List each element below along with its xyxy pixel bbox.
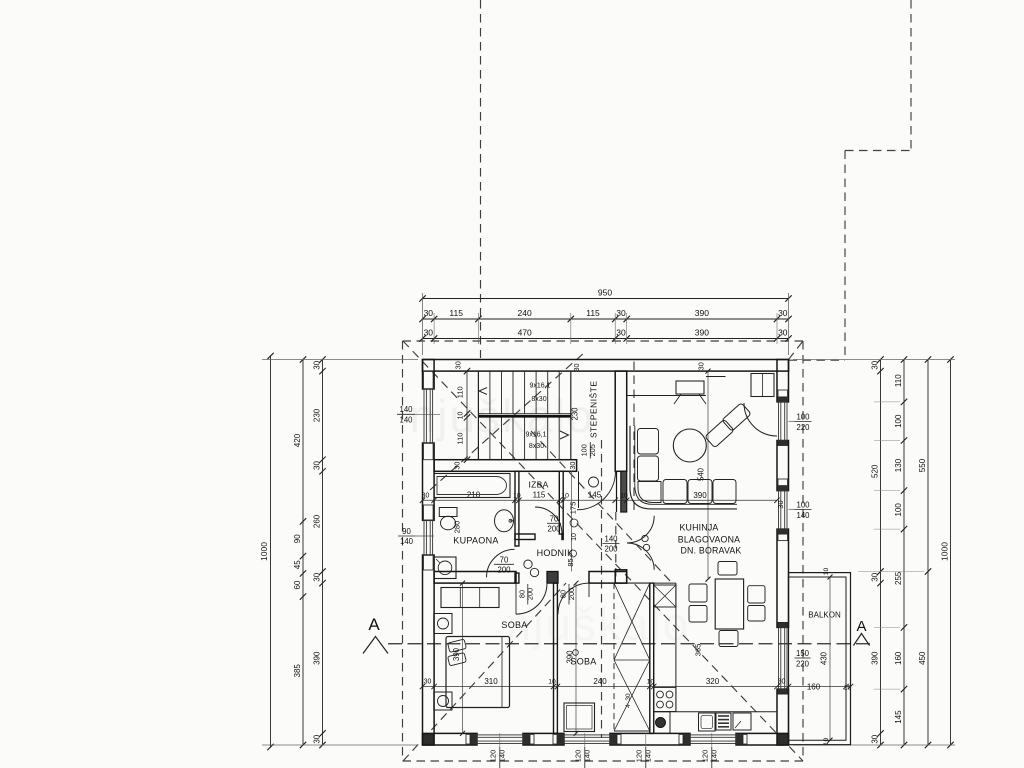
svg-text:120: 120 [489,750,498,763]
window label 120/140 #3 [635,733,653,768]
svg-text:140: 140 [399,405,413,414]
dim hodnik 175-10-85 [566,502,578,567]
dim chain left 420-90-45-60-385 [293,356,306,748]
balcony door 150x220 [779,627,788,689]
wall kupaona-izba divider upper [515,471,519,546]
svg-text:100: 100 [796,413,810,422]
svg-text:115: 115 [449,308,463,318]
svg-text:140: 140 [644,750,653,763]
wall right seg1 [777,360,789,402]
wall below stairs [434,460,576,472]
svg-text:45: 45 [293,560,302,569]
svg-text:200: 200 [526,588,535,600]
svg-text:200: 200 [547,525,561,534]
svg-text:30: 30 [313,572,322,581]
closet soba1 [441,588,499,608]
dashed boundary upper-right horizontal [845,150,911,152]
roof diagonal B [403,583,566,761]
label KUHINJA BLAGOVAONA DN BORAVAK [678,523,742,556]
dim chain top 30-470-30-390-30 [419,328,791,342]
svg-text:450: 450 [918,651,927,665]
window bottom 120x140 kitchen [679,734,747,744]
stair dim 110-10-110 [456,368,471,463]
svg-text:140: 140 [710,750,719,763]
window label 120/140 #2 [574,733,592,768]
svg-text:DN. BORAVAK: DN. BORAVAK [680,546,741,556]
svg-text:70: 70 [500,555,509,564]
svg-text:320: 320 [706,677,720,686]
svg-text:30: 30 [454,361,463,369]
svg-text:30: 30 [871,734,880,743]
svg-text:30: 30 [313,360,322,369]
svg-text:10: 10 [571,533,578,541]
dim extension lines top [423,293,789,355]
wall top [423,360,789,372]
dim kitchen 365 [694,644,703,657]
svg-text:30: 30 [453,462,462,470]
svg-text:STEPENIŠTE: STEPENIŠTE [589,381,599,438]
svg-text:30: 30 [871,572,880,581]
svg-text:220: 220 [796,423,810,432]
svg-text:390: 390 [695,308,709,318]
dashed upper-floor line x634 [633,362,635,516]
svg-text:IZBA: IZBA [528,480,548,490]
svg-text:230: 230 [571,407,580,421]
stair door label 100/205 [580,442,597,459]
wall hall-living lower [615,570,627,583]
svg-text:100: 100 [894,414,903,428]
wall soba2-kitchen [650,583,654,733]
wardrobe soba2 [614,583,650,731]
roof diagonal stair block [430,352,585,490]
svg-text:950: 950 [598,288,612,298]
wall right seg3 [777,529,789,627]
wardrobe living [751,374,774,397]
wall bottom seg4 [736,733,789,745]
window right 100x140 [778,479,788,541]
desk soba2 [564,703,595,732]
door izba 70/200 swing [535,507,562,534]
label 140/200 living [603,535,620,554]
svg-text:390: 390 [695,328,709,338]
wall left upper [423,360,435,390]
wall right seg2 [777,441,789,491]
wall bottom seg2 [523,733,564,745]
svg-text:30: 30 [424,679,432,686]
dim line rooms 310-240-320-160 [420,677,853,692]
dining chair right2 [748,606,765,622]
label STEPENISTE [589,381,599,438]
window label 90/140 [398,527,434,546]
section line A-A [388,643,873,645]
hodnik door knobs [524,560,539,577]
dim chain right 550-450 [918,356,931,748]
kitchen counter [654,583,777,712]
dining chair top [718,562,737,576]
window left 90x140 (kupaona) [424,505,434,570]
stair text lower [525,432,546,451]
labels 30 wall corners [453,361,786,508]
wall left lower [423,555,435,745]
kitchen cabinet [733,713,751,730]
dim extension lines right [793,360,955,746]
svg-text:8x30: 8x30 [529,443,544,450]
svg-text:30: 30 [616,308,626,318]
svg-text:140: 140 [796,511,810,520]
label 80/200 soba2 [558,584,576,605]
wall hall-living upper [615,371,627,471]
svg-text:9x16,1: 9x16,1 [525,432,546,439]
svg-text:205: 205 [588,444,597,456]
door soba1 80/200 swing [516,583,547,614]
door label 100/220 [789,413,812,433]
window left 140x140 (stairs) [424,371,434,460]
bed soba1 [446,637,510,708]
svg-text:430: 430 [820,651,829,665]
dim line rooms 210-115-145 / 390 [420,491,780,503]
svg-text:70: 70 [550,514,559,523]
dining table [715,579,743,629]
stair text upper [529,383,550,403]
staircase [478,371,570,460]
label HODNIK [537,548,574,558]
wall bottom seg1 [423,733,478,745]
dashed boundary over living-room top [789,359,846,361]
svg-text:90: 90 [402,527,411,536]
dim chain left 30-230-30-260-30-390-30 [313,356,326,748]
eaves outline top [403,340,804,342]
svg-text:90: 90 [293,534,302,543]
svg-text:4: 4 [625,704,632,708]
eaves outline bottom [403,760,804,762]
svg-text:85: 85 [566,558,575,566]
svg-text:30: 30 [697,362,706,370]
oven [716,713,731,730]
bathtub [434,474,510,498]
eaves outline right [802,341,804,761]
svg-text:120: 120 [701,750,710,763]
washing machine [434,557,456,579]
svg-text:390: 390 [693,491,707,500]
dashed boundary upper-left vertical [480,0,482,358]
svg-text:140: 140 [399,416,413,425]
svg-text:470: 470 [518,328,532,338]
svg-text:160: 160 [807,683,821,692]
balcony thickness labels [823,568,830,746]
svg-text:30: 30 [313,734,322,743]
eaves outline left [402,341,404,761]
window label 120/140 #4 [701,733,719,768]
wall right seg4 [777,689,789,745]
stove [654,688,676,712]
window bottom 120x140 soba1 [466,734,534,744]
svg-text:1000: 1000 [940,542,950,561]
svg-text:10: 10 [620,492,628,499]
wall izba bottom [515,534,563,540]
label 140/200 hodnik-living [0,0,1,1]
svg-text:30: 30 [778,308,788,318]
wall bottom seg3 [610,733,690,745]
dashed lintel over double door [615,512,617,583]
svg-text:110: 110 [894,374,903,387]
svg-text:30: 30 [625,693,632,701]
svg-text:110: 110 [456,433,465,445]
svg-text:30: 30 [778,328,788,338]
svg-text:10: 10 [823,568,830,576]
svg-text:160: 160 [894,651,903,665]
svg-text:115: 115 [586,308,600,318]
window label 120/140 #1 [489,733,507,768]
svg-text:175: 175 [569,502,578,515]
door soba2 80/200 swing [558,583,589,614]
label BALKON [808,611,841,620]
label 70/200 kupaona [494,555,514,574]
nightstand soba1 top [434,614,452,634]
eaves corner tick top-right [789,341,804,360]
svg-text:60: 60 [293,580,302,589]
label IZBA [528,480,548,490]
kitchen corner sink [654,712,670,734]
svg-text:540: 540 [697,467,706,481]
window bottom 120x140 soba2 [553,734,621,744]
dim chain right 30-520-30-390-30 [871,356,884,748]
label KUPAONA [453,536,498,546]
svg-text:130: 130 [894,458,903,472]
stair dim 230 [571,407,580,421]
svg-text:30: 30 [776,500,785,508]
svg-text:385: 385 [293,664,302,678]
svg-text:30: 30 [871,360,880,369]
svg-text:10: 10 [513,492,521,499]
svg-text:145: 145 [894,710,903,724]
svg-text:100: 100 [894,503,903,517]
svg-text:110: 110 [456,386,465,398]
dim chain right 110-100-130-100-255-160-145 [894,356,907,748]
svg-text:30: 30 [778,679,786,686]
svg-text:10: 10 [561,492,569,499]
svg-text:255: 255 [894,571,903,585]
dashed boundary upper-right vertical [910,0,912,151]
coffee table [673,429,706,462]
svg-text:200: 200 [567,588,576,600]
svg-text:30: 30 [424,328,434,338]
svg-text:115: 115 [533,491,546,500]
svg-text:260: 260 [313,514,322,528]
dim chain left total 1000 [259,353,274,750]
svg-text:240: 240 [518,308,532,318]
armchair 1 [705,419,734,448]
roof diagonal A [403,341,803,761]
dim living 540 [697,369,711,582]
dim chain top 30-115-240-115-30-390-30 [419,308,791,322]
svg-text:SOBA: SOBA [570,657,596,667]
section marker A left [363,615,388,654]
svg-text:120: 120 [574,750,583,763]
dining chair left1 [689,584,707,602]
svg-text:30: 30 [422,492,430,499]
dining chair bottom [719,631,738,647]
hodnik landing edge line [571,471,573,571]
door stairs 100/205 [577,471,616,510]
svg-text:140: 140 [583,750,592,763]
svg-text:200: 200 [497,566,511,575]
wall kupaona divider stub [515,573,519,583]
dining chair left2 [689,606,707,623]
section marker A right [854,618,870,646]
svg-text:30: 30 [313,461,322,470]
watermark [410,390,691,650]
svg-text:10: 10 [458,412,465,420]
svg-text:150: 150 [796,649,810,658]
svg-text:10: 10 [823,738,830,746]
svg-text:30: 30 [568,462,577,470]
svg-text:30: 30 [424,308,434,318]
svg-text:SOBA: SOBA [501,620,527,630]
svg-text:140: 140 [498,750,507,763]
svg-text:30: 30 [572,363,581,371]
door label 150/220 [795,649,811,669]
wall above bedrooms seg1 [434,572,516,584]
svg-text:145: 145 [588,491,602,500]
svg-text:A: A [368,615,380,634]
wall left mid [423,443,435,520]
dashed boundary mid-right vertical [844,151,846,361]
svg-text:420: 420 [293,433,302,447]
dim chain top total 950 [419,288,791,302]
dashed upper-floor line x601 [601,440,603,738]
toilet [439,508,457,530]
svg-text:1000: 1000 [259,542,269,561]
svg-text:520: 520 [871,464,880,478]
wall above bedrooms seg3 [589,572,627,584]
svg-text:9x16,1: 9x16,1 [529,383,550,390]
svg-text:140: 140 [604,535,618,544]
label SOBA 1 [501,620,527,630]
fridge [654,585,676,607]
wall izba-hall divider [559,471,563,534]
roof diagonal hodnik [531,431,672,583]
window label 100/140 [789,501,812,521]
svg-text:210: 210 [467,491,481,500]
nightstand soba1 bottom [434,692,452,710]
svg-text:100: 100 [796,501,810,510]
window label 140/140 [397,405,440,425]
label 70/200 izba [547,514,561,533]
svg-text:BALKON: BALKON [808,611,841,620]
dim extension lines left [262,360,418,746]
shelf living [706,376,726,378]
sideboard living [628,381,707,404]
terrace door 100x220 right wall [744,390,788,441]
svg-text:390: 390 [871,651,880,665]
balcony dim 430 [820,575,833,743]
svg-text:220: 220 [796,660,810,669]
svg-text:310: 310 [484,677,498,686]
kitchen small dim [625,693,632,708]
svg-text:KUHINJA: KUHINJA [679,523,718,533]
svg-text:390: 390 [313,651,322,665]
wall above bedrooms seg2 [547,572,558,584]
balcony [789,573,851,745]
svg-text:140: 140 [400,537,414,546]
svg-text:30: 30 [616,328,626,338]
dim soba1 390 [452,581,465,736]
dim kupaona 280 [453,521,462,534]
svg-text:HODNIK: HODNIK [537,548,574,558]
washbasin [495,510,515,532]
svg-text:230: 230 [313,408,322,422]
dim chain right total 1000 [940,356,954,748]
window jamb blocks [423,397,788,744]
wall hall-living stub [617,471,627,512]
svg-text:240: 240 [593,677,607,686]
dishwasher [699,713,716,731]
dining chair right1 [748,586,765,603]
label 80/200 soba1 [517,584,534,605]
svg-text:120: 120 [635,750,644,763]
svg-text:365: 365 [694,644,703,657]
sofa [630,426,737,509]
svg-text:10: 10 [548,679,556,686]
svg-text:10: 10 [647,679,655,686]
svg-text:BLAGOVAONA: BLAGOVAONA [678,535,740,545]
svg-text:200: 200 [604,545,618,554]
svg-text:8x30: 8x30 [531,396,546,403]
svg-text:njuškalo: njuškalo [506,598,691,650]
door kupaona 70/200 swing [487,549,515,577]
double door living 140/200 [627,516,654,570]
dim soba2 390 [566,581,579,736]
wall soba1-soba2 [554,583,558,733]
armchair 2 [722,403,751,432]
svg-text:KUPAONA: KUPAONA [453,536,498,546]
svg-text:550: 550 [918,458,927,472]
label SOBA 2 [570,650,596,667]
